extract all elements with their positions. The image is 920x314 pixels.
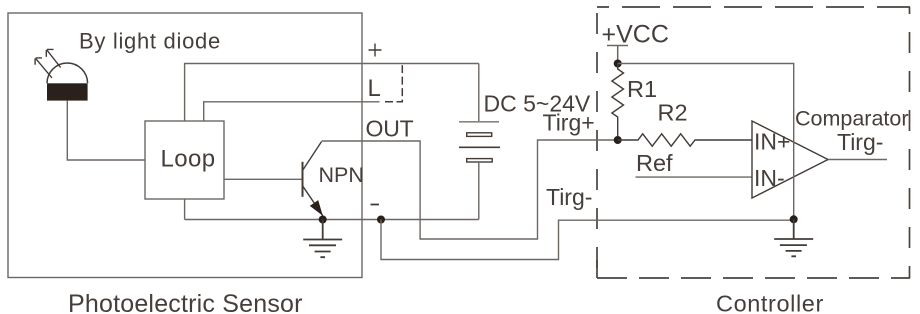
ground G2: [774, 219, 813, 256]
svg-text:L: L: [368, 75, 381, 102]
svg-text:Photoelectric Sensor: Photoelectric Sensor: [68, 290, 303, 314]
svg-text:IN-: IN-: [754, 165, 785, 191]
sensor enclosure box: [8, 13, 362, 278]
battery BT1 plate short 2: [467, 159, 493, 162]
svg-text:NPN: NPN: [319, 163, 364, 187]
svg-text:DC 5~24V: DC 5~24V: [484, 91, 591, 117]
dashed optional link L to plus rail: [385, 65, 402, 102]
battery BT1 plate long 1: [459, 121, 499, 123]
wire photodiode to Loop: [67, 101, 145, 160]
power symbol VCC bar and stub: [607, 46, 628, 64]
svg-text:Tirg-: Tirg-: [546, 184, 592, 210]
svg-text:+VCC: +VCC: [602, 21, 669, 49]
transistor Q1 collector: [303, 142, 322, 171]
controller enclosure (dashed) left edge: [596, 7, 598, 278]
node junction Tirg- branch on minus rail: [377, 216, 385, 224]
wire Loop to transistor base: [224, 178, 303, 180]
controller enclosure (dashed) left edge corner stub: [596, 260, 598, 278]
photodiode D1 light arrow 1: [46, 49, 60, 67]
transistor Q1 emitter: [303, 186, 323, 220]
svg-text:Ref: Ref: [636, 150, 673, 176]
photodiode D1 dome: [47, 63, 88, 83]
svg-text:Comparator: Comparator: [795, 107, 909, 131]
comparator U1 triangle: [752, 121, 828, 198]
svg-text:Loop: Loop: [161, 146, 216, 173]
controller enclosure (dashed) bottom edge: [597, 277, 910, 279]
svg-text:Tirg-: Tirg-: [837, 129, 883, 155]
battery BT1 bottom wire: [478, 162, 480, 220]
wire Loop top to plus rail: [185, 64, 479, 122]
controller enclosure (dashed) top edge: [597, 6, 910, 8]
photodiode D1 light arrow 2: [35, 58, 52, 78]
Loop block U2: [145, 121, 224, 199]
terminal label plus: [369, 44, 382, 57]
node junction emitter on minus rail: [319, 216, 327, 224]
resistor R2: [618, 134, 752, 146]
wire minus rail: [185, 219, 479, 221]
battery BT1 top wire: [478, 64, 480, 122]
transistor Q1 emitter arrowhead: [310, 200, 323, 216]
battery BT1 plate long 2: [459, 146, 500, 148]
svg-text:IN+: IN+: [754, 129, 790, 155]
wire Loop bottom to minus rail: [184, 199, 186, 220]
transistor Q1 base bar: [302, 162, 304, 197]
wire VCC rail through comparator to ground: [618, 64, 794, 220]
wire comparator output: [828, 159, 887, 161]
battery BT1 plate short 1: [467, 133, 492, 137]
terminal label minus: [371, 204, 380, 206]
svg-text:OUT: OUT: [366, 116, 414, 142]
node junction VCC: [614, 60, 622, 68]
svg-text:R2: R2: [658, 100, 688, 126]
node junction Tirg+ / R1 / R2: [614, 136, 622, 144]
resistor R1: [612, 64, 624, 141]
wire Ref to IN-: [636, 176, 753, 178]
wire Tirg- from minus rail to controller ground: [381, 220, 794, 260]
ground G1: [303, 220, 342, 258]
wire OUT to Tirg+ node: [322, 140, 618, 239]
svg-text:Controller: Controller: [716, 291, 824, 314]
wire Loop to L terminal: [204, 102, 380, 121]
photodiode D1 body: [47, 83, 88, 100]
node junction controller ground: [790, 215, 798, 223]
controller enclosure (dashed) right edge: [909, 7, 911, 278]
svg-text:R1: R1: [627, 76, 657, 102]
svg-text:By light diode: By light diode: [79, 29, 221, 54]
